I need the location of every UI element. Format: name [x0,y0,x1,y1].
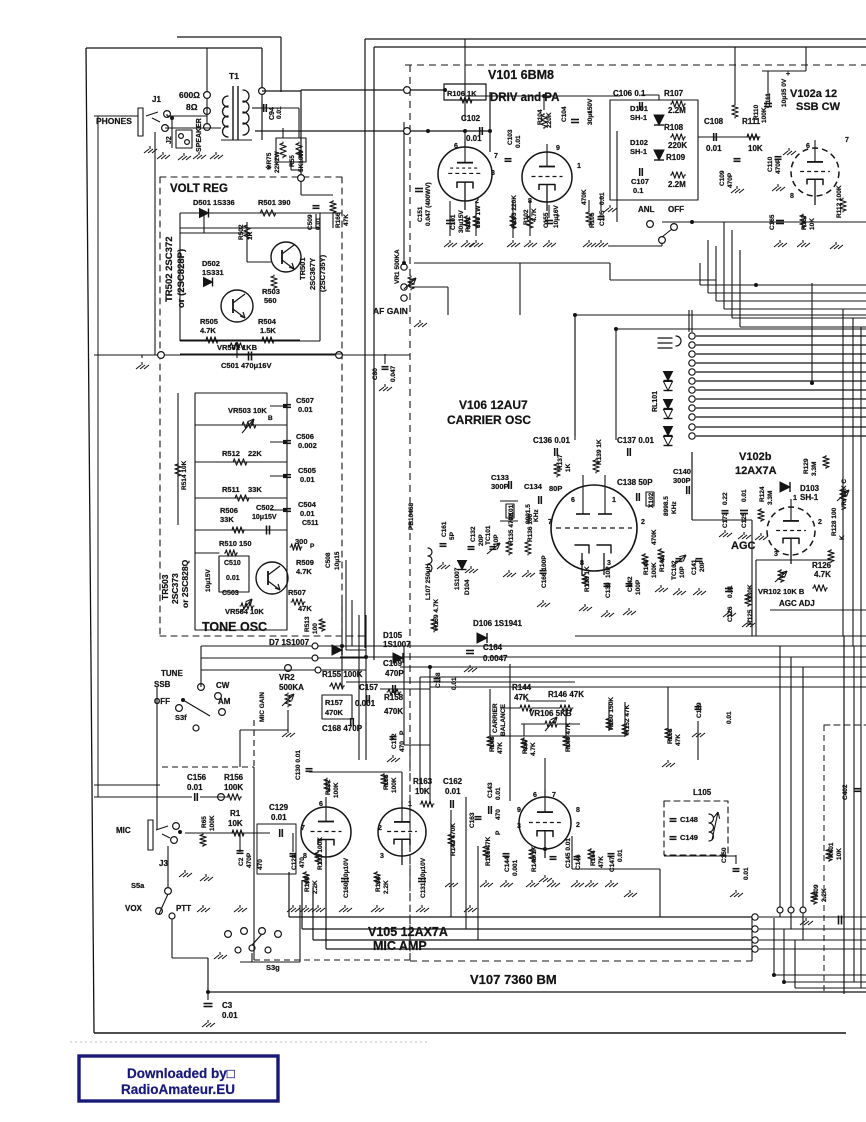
svg-text:R112 100K: R112 100K [836,185,843,218]
svg-text:0.01: 0.01 [726,711,733,724]
svg-text:3: 3 [607,560,611,567]
svg-text:MIC: MIC [116,826,131,835]
svg-text:R1: R1 [230,809,241,818]
svg-text:10K: 10K [415,787,430,796]
svg-text:R156: R156 [224,773,244,782]
svg-text:C506: C506 [296,432,314,441]
svg-text:8: 8 [580,560,584,567]
svg-text:6: 6 [571,497,575,504]
svg-text:R503: R503 [262,287,280,296]
svg-text:OFF: OFF [668,205,684,214]
svg-text:R126: R126 [812,561,832,570]
svg-text:6: 6 [319,801,323,808]
svg-text:C158: C158 [435,672,442,688]
svg-text:C130 0.01: C130 0.01 [295,750,302,780]
svg-text:ANL: ANL [638,205,655,214]
svg-text:VR501 1KB: VR501 1KB [217,343,258,352]
svg-text:2: 2 [641,519,645,526]
svg-text:SH-1: SH-1 [630,147,647,156]
svg-text:L105: L105 [693,788,712,797]
svg-text:30μ150V: 30μ150V [587,98,594,125]
svg-text:C143: C143 [487,782,494,798]
svg-text:0.0047: 0.0047 [483,654,508,663]
svg-text:10μ35 0V: 10μ35 0V [781,78,788,107]
svg-text:2.2M: 2.2M [668,180,686,189]
svg-text:R104: R104 [537,109,544,125]
svg-text:2: 2 [378,825,382,832]
svg-text:R506: R506 [220,506,238,515]
svg-text:560: 560 [264,296,277,305]
svg-text:V107 7360 BM: V107 7360 BM [470,972,557,987]
svg-text:0.01: 0.01 [222,1011,238,1020]
svg-text:PB10468: PB10468 [408,503,415,530]
svg-text:TONE OSC: TONE OSC [202,620,267,634]
svg-text:470: 470 [299,857,306,868]
svg-text:PTT: PTT [176,904,191,913]
svg-text:0.01: 0.01 [187,783,203,792]
svg-text:0.001: 0.001 [512,859,519,876]
svg-text:7: 7 [548,519,552,526]
svg-text:TR502 2SC372: TR502 2SC372 [164,237,175,302]
svg-text:V101 6BM8: V101 6BM8 [488,68,554,82]
svg-text:KHz: KHz [533,509,540,522]
svg-text:300: 300 [295,537,308,546]
svg-text:0.001: 0.001 [355,699,376,708]
svg-text:AM: AM [218,697,231,706]
svg-text:22K: 22K [248,449,262,458]
svg-text:12AX7A: 12AX7A [735,465,777,477]
svg-text:80P: 80P [549,484,562,493]
svg-text:1.5K: 1.5K [260,326,276,335]
svg-text:C164: C164 [483,643,503,652]
svg-text:C507: C507 [296,396,314,405]
svg-text:5P: 5P [449,531,456,540]
svg-text:0.01: 0.01 [271,813,287,822]
svg-text:MIC AMP: MIC AMP [373,939,427,953]
svg-text:R128 100: R128 100 [831,507,838,536]
svg-text:2: 2 [818,519,822,526]
svg-text:SH-1: SH-1 [630,113,647,122]
svg-text:OFF: OFF [154,697,170,706]
svg-text:C137 0.01: C137 0.01 [617,436,654,445]
svg-text:0.01: 0.01 [451,677,458,690]
svg-text:470: 470 [495,809,502,820]
svg-text:C511: C511 [302,520,318,527]
svg-text:R106 1K: R106 1K [447,89,477,98]
svg-text:33K: 33K [248,485,262,494]
svg-text:C107: C107 [631,177,649,186]
svg-text:10K: 10K [809,218,816,230]
svg-text:L107 250μH: L107 250μH [425,564,432,600]
svg-text:C145 0.01: C145 0.01 [565,838,572,868]
svg-text:C110: C110 [767,156,774,172]
svg-text:R501 390: R501 390 [258,198,291,207]
svg-text:C168 470P: C168 470P [322,724,363,733]
svg-text:6: 6 [533,792,537,799]
svg-text:D7 1S1007: D7 1S1007 [269,638,310,647]
svg-text:R124: R124 [759,486,766,502]
svg-text:C501 470μ16V: C501 470μ16V [221,361,271,370]
svg-text:C505: C505 [298,466,316,475]
svg-text:J3: J3 [159,859,168,868]
svg-text:R165 47K: R165 47K [485,836,492,866]
svg-text:R139 1K: R139 1K [596,439,603,465]
svg-text:AGC ADJ: AGC ADJ [779,599,815,608]
svg-text:R108: R108 [664,123,684,132]
svg-text:0.01: 0.01 [226,575,240,582]
svg-text:470P: 470P [246,852,253,868]
svg-text:0.01: 0.01 [706,144,722,153]
svg-text:R55: R55 [289,155,296,167]
svg-text:0.01: 0.01 [599,192,606,205]
svg-text:P: P [495,830,502,835]
svg-text:8Ω: 8Ω [186,102,198,112]
svg-text:10K: 10K [836,848,843,860]
svg-text:VR2: VR2 [279,673,295,682]
svg-text:8: 8 [576,807,580,814]
svg-text:R146 47K: R146 47K [548,690,584,699]
svg-text:C2: C2 [238,857,245,866]
svg-text:1S1007: 1S1007 [383,640,411,649]
svg-text:470K: 470K [325,708,344,717]
svg-text:+: + [786,71,790,78]
svg-text:C144: C144 [504,856,511,872]
svg-text:300P: 300P [491,482,509,491]
svg-text:47K: 47K [675,734,682,746]
svg-text:R109: R109 [666,153,686,162]
svg-text:R157: R157 [325,698,343,707]
svg-text:(2SC735Y): (2SC735Y) [318,254,327,292]
svg-text:TR503: TR503 [160,574,170,600]
svg-text:C149: C149 [680,833,698,842]
svg-text:CARRIER: CARRIER [492,703,499,733]
svg-text:9: 9 [556,145,560,152]
svg-text:S5a: S5a [131,881,145,890]
svg-text:TUNE: TUNE [161,669,183,678]
svg-text:C101: C101 [450,214,457,230]
svg-text:20P: 20P [478,534,485,546]
svg-text:3.3M: 3.3M [767,491,774,505]
svg-text:D105: D105 [383,631,403,640]
svg-text:C151: C151 [417,206,424,222]
svg-text:or 2SC828Q: or 2SC828Q [180,559,190,608]
svg-text:100K: 100K [761,107,768,123]
svg-text:J2: J2 [166,136,173,144]
svg-text:1K: 1K [247,231,254,240]
svg-text:0.01: 0.01 [445,787,461,796]
svg-text:0.01: 0.01 [741,489,748,502]
svg-text:470P: 470P [727,172,734,188]
svg-text:C109: C109 [719,170,726,186]
svg-text:C172: C172 [391,733,398,749]
svg-text:470: 470 [257,859,264,870]
svg-text:D501 1S336: D501 1S336 [193,198,235,207]
svg-text:10μ15V: 10μ15V [252,514,277,521]
svg-text:R166: R166 [335,212,342,228]
svg-text:R514 10K: R514 10K [181,460,188,490]
svg-text:VOLT REG: VOLT REG [170,183,228,195]
svg-text:V102b: V102b [739,451,772,463]
svg-text:or (2SC828P): or (2SC828P) [176,249,187,308]
svg-text:S3f: S3f [175,713,187,722]
svg-text:C510: C510 [224,560,241,567]
svg-text:0.01: 0.01 [300,475,315,484]
svg-text:0.01: 0.01 [515,135,522,148]
svg-text:C157: C157 [359,683,379,692]
svg-text:D103: D103 [800,484,820,493]
svg-text:10P: 10P [605,566,612,578]
svg-text:MIC GAIN: MIC GAIN [259,692,266,722]
svg-text:0.047: 0.047 [390,365,397,382]
svg-text:3.3M: 3.3M [811,462,818,476]
svg-text:C134: C134 [524,482,543,491]
svg-text:C160 10μ10V: C160 10μ10V [343,857,350,898]
svg-text:R502: R502 [238,224,245,240]
svg-text:DRIV and PA: DRIV and PA [490,92,559,104]
svg-text:500KA: 500KA [279,683,304,692]
svg-text:10K: 10K [748,144,763,153]
svg-text:R111: R111 [742,117,761,126]
svg-text:600Ω: 600Ω [179,90,200,100]
svg-text:D101: D101 [630,104,648,113]
svg-text:C504: C504 [298,500,317,509]
svg-text:100K: 100K [224,783,243,792]
svg-text:PHONES: PHONES [96,116,132,126]
svg-text:6: 6 [454,143,458,150]
svg-text:1: 1 [793,495,797,502]
svg-text:C136 0.01: C136 0.01 [533,436,570,445]
svg-text:0.01: 0.01 [300,509,315,518]
svg-text:C94: C94 [269,107,276,120]
svg-text:1S1007: 1S1007 [454,567,461,590]
svg-text:4.7K: 4.7K [530,742,537,756]
svg-text:47K: 47K [298,604,312,613]
svg-text:22K2W: 22K2W [274,150,281,173]
svg-text:470K: 470K [384,707,403,716]
svg-text:D502: D502 [202,259,220,268]
svg-text:2: 2 [576,822,580,829]
svg-text:0.22: 0.22 [722,492,729,505]
svg-text:TC101: TC101 [485,525,492,545]
svg-text:8998.5: 8998.5 [663,496,670,516]
svg-text:V102a 12: V102a 12 [790,88,837,100]
svg-text:V105 12AX7A: V105 12AX7A [368,925,448,939]
svg-text:4.7K: 4.7K [296,567,312,576]
svg-text:2.2K: 2.2K [821,888,828,902]
svg-text:R129: R129 [803,458,810,474]
svg-text:47K: 47K [343,214,350,226]
svg-text:3: 3 [491,170,495,177]
svg-text:R65: R65 [201,816,208,828]
svg-text:C131 10μ10V: C131 10μ10V [420,857,427,898]
svg-text:0.002: 0.002 [298,441,317,450]
svg-text:7: 7 [301,825,305,832]
svg-text:4.7K: 4.7K [814,570,831,579]
svg-text:10K: 10K [228,819,243,828]
svg-text:470P: 470P [775,158,782,174]
svg-text:220K: 220K [546,112,553,128]
svg-text:1: 1 [577,163,581,170]
svg-text:10μ15: 10μ15 [334,551,341,570]
svg-text:3: 3 [517,823,521,830]
svg-text:CARRIER OSC: CARRIER OSC [447,413,531,427]
svg-text:100P: 100P [635,579,642,595]
svg-text:100: 100 [312,623,319,634]
svg-text:7: 7 [552,792,556,799]
svg-text:R136 100: R136 100 [527,513,534,542]
svg-text:VR503 10K: VR503 10K [228,406,267,415]
svg-text:SSB CW: SSB CW [796,101,841,113]
svg-text:100K: 100K [391,777,398,793]
svg-text:300P: 300P [673,476,691,485]
svg-text:0.01: 0.01 [495,787,502,800]
svg-text:R135 470K: R135 470K [508,512,515,545]
svg-text:10P: 10P [679,566,686,578]
svg-text:R507: R507 [288,588,306,597]
svg-text:10μ15V: 10μ15V [205,569,212,592]
svg-text:※R75: ※R75 [265,152,273,170]
svg-text:TR501: TR501 [298,257,307,280]
svg-text:3: 3 [380,853,384,860]
svg-text:9: 9 [517,807,521,814]
svg-text:C162: C162 [443,777,463,786]
svg-text:C156: C156 [187,773,207,782]
svg-text:C133: C133 [491,473,509,482]
svg-text:B: B [268,415,273,422]
svg-text:C105: C105 [599,210,606,226]
svg-text:D104: D104 [464,579,471,595]
svg-text:C169: C169 [383,659,403,668]
svg-text:T1: T1 [229,71,239,81]
svg-text:AF GAIN: AF GAIN [373,306,408,316]
svg-text:1: 1 [612,497,616,504]
svg-text:D102: D102 [630,138,648,147]
svg-text:P: P [310,543,315,550]
svg-text:2SC367Y: 2SC367Y [308,258,317,290]
svg-text:0.01: 0.01 [743,867,750,880]
svg-text:C106 0.1: C106 0.1 [613,89,646,98]
svg-text:R105: R105 [589,212,596,228]
svg-text:Downloaded by□: Downloaded by□ [127,1066,235,1081]
svg-text:100K: 100K [651,562,658,578]
svg-text:R509: R509 [296,558,314,567]
svg-text:33K: 33K [220,515,234,524]
svg-text:J1: J1 [152,95,161,104]
svg-text:8: 8 [790,193,794,200]
svg-text:D106 1S1941: D106 1S1941 [473,619,522,628]
svg-text:2.2K: 2.2K [383,880,390,894]
svg-text:C502: C502 [256,503,274,512]
svg-text:C102: C102 [461,114,481,123]
svg-text:470K: 470K [581,189,588,205]
svg-text:220K: 220K [668,141,687,150]
svg-text:1K: 1K [565,463,572,472]
svg-text:R138 1K: R138 1K [584,566,591,592]
svg-text:RadioAmateur.EU: RadioAmateur.EU [121,1082,235,1097]
svg-text:VR1 500KA: VR1 500KA [394,249,401,284]
svg-text:C140: C140 [673,467,691,476]
svg-text:7: 7 [494,153,498,160]
svg-text:470P: 470P [385,669,404,678]
svg-text:SPEAKER: SPEAKER [196,118,203,152]
svg-text:100K: 100K [209,815,216,831]
svg-text:R505: R505 [200,317,218,326]
svg-text:R513: R513 [304,616,311,632]
svg-text:C150: C150 [721,847,728,863]
svg-text:C138 50P: C138 50P [617,478,653,487]
svg-text:R512: R512 [222,449,240,458]
svg-text:C80: C80 [372,368,379,380]
svg-text:C148: C148 [680,815,698,824]
svg-text:47K: 47K [497,742,504,754]
svg-text:VOX: VOX [125,904,143,913]
svg-text:0.01: 0.01 [298,405,313,414]
svg-text:47K: 47K [598,856,605,868]
svg-text:C147: C147 [609,856,616,872]
svg-text:C402: C402 [842,784,849,800]
svg-text:R158: R158 [384,693,404,702]
svg-text:C103: C103 [507,129,514,145]
svg-text:RL101: RL101 [652,391,659,412]
svg-text:SH-1: SH-1 [800,493,819,502]
svg-text:C161: C161 [441,521,448,537]
svg-text:0.1: 0.1 [633,186,643,195]
svg-text:470K: 470K [651,529,658,545]
svg-text:100K: 100K [333,782,340,798]
svg-text:C508: C508 [325,552,332,568]
svg-text:3: 3 [774,551,778,558]
svg-text:C3: C3 [222,1001,233,1010]
svg-text:CW: CW [216,681,230,690]
svg-text:7: 7 [845,137,849,144]
svg-text:0.01: 0.01 [617,849,624,862]
svg-text:470: 470 [399,741,406,752]
svg-text:R107: R107 [664,89,684,98]
svg-text:C104: C104 [561,106,568,122]
svg-text:S3g: S3g [266,963,280,972]
svg-text:4.7K: 4.7K [200,326,216,335]
svg-text:KHz: KHz [671,501,678,514]
svg-text:1S331: 1S331 [202,268,224,277]
svg-text:R510 150: R510 150 [219,539,252,548]
svg-text:2SC373: 2SC373 [170,573,180,604]
svg-text:VR102 10K B: VR102 10K B [758,587,805,596]
svg-text:V106 12AU7: V106 12AU7 [459,398,528,412]
svg-text:P: P [399,730,406,735]
svg-text:0.01: 0.01 [466,134,482,143]
svg-text:C132: C132 [470,526,477,542]
svg-text:10μ16V: 10μ16V [553,205,560,228]
svg-text:C108: C108 [704,117,724,126]
svg-text:R511: R511 [222,485,240,494]
svg-text:0.047 (400WV): 0.047 (400WV) [425,182,432,226]
svg-text:R504: R504 [258,317,277,326]
svg-text:C129: C129 [269,803,289,812]
svg-text:6: 6 [806,143,810,150]
svg-text:C503: C503 [222,590,239,597]
